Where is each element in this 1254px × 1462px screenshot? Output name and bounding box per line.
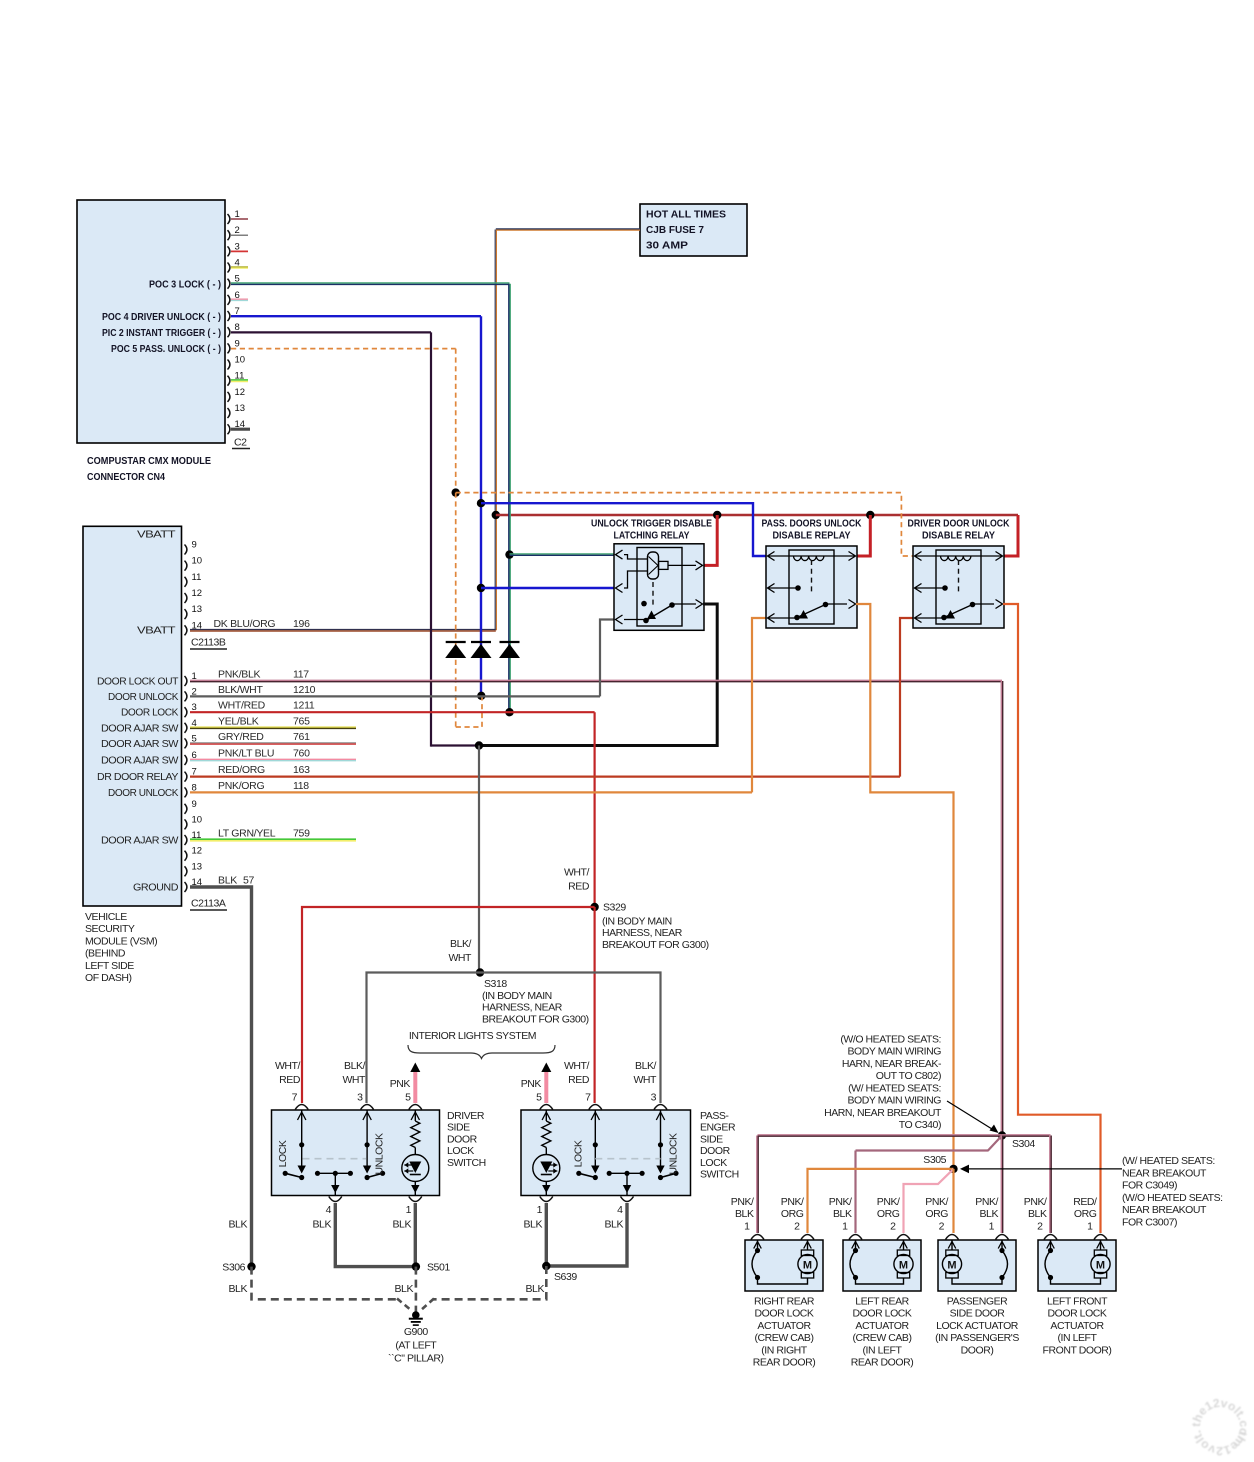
pin 5 of VSM connector C2113A — [185, 733, 197, 748]
wire PNK/BLK bus at actuators — [758, 1135, 1051, 1136]
svg-text:10: 10 — [192, 556, 203, 567]
svg-text:BLK: BLK — [229, 1219, 248, 1231]
svg-text:DOOR LOCK: DOOR LOCK — [755, 1308, 814, 1320]
svg-text:VBATT: VBATT — [137, 529, 176, 541]
pin 11 of VSM connector C2113B — [185, 572, 202, 587]
label wire PNK/BLK pin 1 at x757 — [731, 1196, 754, 1233]
svg-text:(IN RIGHT: (IN RIGHT — [761, 1344, 808, 1356]
svg-text:VBATT: VBATT — [137, 625, 176, 637]
svg-text:PNK/: PNK/ — [829, 1196, 852, 1208]
label connector C2113A — [190, 898, 227, 911]
label wire PNK/BLK 117 — [218, 669, 309, 681]
svg-text:10: 10 — [192, 814, 203, 825]
wire BLK passenger pin1 to S639 — [545, 1203, 548, 1266]
svg-text:POC 4 DRIVER UNLOCK ( - ): POC 4 DRIVER UNLOCK ( - ) — [102, 311, 221, 323]
svg-text:DOOR UNLOCK: DOOR UNLOCK — [108, 691, 178, 703]
svg-text:RED: RED — [279, 1074, 301, 1086]
svg-text:ACTUATOR: ACTUATOR — [1050, 1320, 1104, 1332]
label wire PNK/BLK pin 1 at x855 — [829, 1196, 852, 1233]
wire BLK dashed S501 to ground — [415, 1267, 418, 1312]
pin 8 of CMX connector — [228, 322, 240, 337]
pin 3 of CMX connector — [228, 241, 240, 256]
svg-text:7: 7 — [292, 1092, 298, 1104]
svg-text:ORG: ORG — [1074, 1208, 1097, 1220]
wire PNK/BLK drop act1 — [757, 1136, 758, 1234]
wire red drop to relay2 coil pin — [856, 515, 870, 556]
wire DK BLU/ORG 196 to VSM VBATT pin14 — [190, 630, 496, 631]
svg-text:BLK: BLK — [524, 1219, 543, 1231]
svg-text:BLK: BLK — [313, 1219, 332, 1231]
svg-text:CJB FUSE 7: CJB FUSE 7 — [646, 224, 704, 236]
svg-text:C2: C2 — [234, 437, 247, 449]
svg-text:BLK: BLK — [218, 875, 237, 887]
svg-text:(IN LEFT: (IN LEFT — [863, 1344, 903, 1356]
note W/ HEATED SEATS near S305 — [1122, 1155, 1223, 1228]
svg-text:PNK/: PNK/ — [877, 1196, 900, 1208]
svg-text:PNK/: PNK/ — [781, 1196, 804, 1208]
svg-text:2: 2 — [890, 1221, 896, 1233]
svg-text:DK BLU/ORG: DK BLU/ORG — [214, 618, 276, 630]
wire BLK passenger pin4 to S639 — [546, 1203, 627, 1266]
svg-text:765: 765 — [293, 715, 310, 727]
wire RED/ORG 163 up to relay3 — [900, 618, 914, 777]
svg-text:S306: S306 — [222, 1262, 245, 1274]
junction orange dashed branch — [452, 488, 460, 496]
svg-text:POC 5 PASS. UNLOCK ( - ): POC 5 PASS. UNLOCK ( - ) — [111, 343, 221, 355]
wire BLK/WHT 1210 horizontal — [190, 695, 600, 697]
wire BLK/WHT 1210 up to relay1 — [600, 620, 615, 697]
caption A1 right rear door lock actuator — [753, 1296, 816, 1369]
diode D2 on driver unlock line — [471, 642, 492, 658]
svg-text:HARNESS, NEAR: HARNESS, NEAR — [602, 927, 683, 939]
label C2 connector name — [232, 437, 250, 449]
label BLK/WHT above S318 — [448, 938, 472, 964]
relay U3 DRIVER DOOR UNLOCK DISABLE RELAY — [908, 518, 1010, 542]
svg-text:DOOR AJAR SW: DOOR AJAR SW — [101, 755, 179, 767]
wire WHT/RED run to driver switch — [302, 907, 595, 1103]
svg-text:760: 760 — [293, 748, 310, 760]
svg-text:PNK/LT BLU: PNK/LT BLU — [218, 748, 274, 760]
pin 4 driver switch — [326, 1197, 342, 1217]
wire relay3 switch out red/org — [1003, 604, 1101, 1233]
wire PIC2 purple riser — [430, 332, 432, 746]
svg-text:WHT: WHT — [342, 1074, 366, 1086]
svg-text:BODY MAIN WIRING: BODY MAIN WIRING — [847, 1095, 941, 1107]
svg-text:12: 12 — [192, 588, 203, 599]
pin 14 of VSM connector C2113B — [185, 620, 203, 635]
svg-text:UNLOCK: UNLOCK — [374, 1133, 386, 1175]
pin 10 of VSM connector C2113B — [185, 556, 203, 571]
pin 3 passenger switch — [651, 1092, 667, 1110]
wire stub GRY/RED 761 — [190, 743, 356, 744]
junction lock branch to relay1 — [505, 550, 513, 558]
pin arcs A4 left front door lock actuator — [1044, 1235, 1107, 1240]
pin 1 passenger switch — [537, 1197, 553, 1217]
svg-text:1: 1 — [406, 1204, 412, 1216]
svg-text:S329: S329 — [603, 902, 626, 914]
svg-text:DOOR UNLOCK: DOOR UNLOCK — [108, 787, 178, 799]
svg-text:5: 5 — [536, 1092, 542, 1104]
svg-text:BLK: BLK — [833, 1208, 852, 1220]
wire stub CMX pin3 — [231, 250, 248, 252]
svg-text:LOCK ACTUATOR: LOCK ACTUATOR — [936, 1320, 1019, 1332]
svg-text:BODY MAIN WIRING: BODY MAIN WIRING — [847, 1046, 941, 1058]
svg-text:PASS. DOORS UNLOCK: PASS. DOORS UNLOCK — [762, 518, 862, 530]
svg-text:12: 12 — [235, 387, 246, 398]
svg-text:3: 3 — [357, 1092, 363, 1104]
svg-text:PNK/: PNK/ — [925, 1196, 948, 1208]
svg-text:COMPUSTAR CMX MODULE: COMPUSTAR CMX MODULE — [87, 455, 211, 467]
label WHT/RED passenger pin7 — [564, 1060, 590, 1086]
label wire PNK/ORG pin 2 at x807 — [781, 1196, 804, 1233]
junction lock line to WHT/RED 1211 — [505, 708, 513, 716]
label wire RED/ORG 163 — [218, 764, 310, 776]
svg-text:OF DASH): OF DASH) — [85, 972, 132, 984]
note W/O HEATED SEATS near S304 — [824, 1033, 942, 1131]
pin 7 passenger switch — [585, 1092, 602, 1110]
wire stub CMX pin6 — [231, 299, 248, 300]
svg-text:2: 2 — [235, 225, 240, 236]
svg-text:FRONT DOOR): FRONT DOOR) — [1043, 1344, 1112, 1356]
svg-text:9: 9 — [235, 338, 240, 349]
junction blue to BLK/WHT 1210 — [477, 692, 485, 700]
wire fuse feed riser dk blu/org — [495, 230, 496, 631]
pin 2 of CMX connector — [228, 225, 240, 240]
label wire BLK/WHT 1210 — [218, 684, 316, 696]
svg-text:163: 163 — [293, 764, 310, 776]
svg-text:S318: S318 — [484, 978, 507, 990]
svg-text:ORG: ORG — [877, 1208, 900, 1220]
svg-text:DOOR): DOOR) — [961, 1344, 994, 1356]
label wire BLK 57 — [218, 875, 255, 887]
svg-text:14: 14 — [192, 620, 203, 631]
wire PNK to interior lights driver — [410, 1063, 420, 1104]
label wire PNK/LT BLU 760 — [218, 748, 310, 760]
svg-text:9: 9 — [192, 799, 197, 810]
splice S306 — [247, 1262, 255, 1270]
wire POC5 orange dashed riser upper — [455, 349, 457, 493]
label WHT/RED above S329 — [564, 867, 590, 893]
svg-text:1: 1 — [744, 1221, 750, 1233]
svg-text:BLK: BLK — [229, 1283, 248, 1295]
relay U1 latching relay body — [614, 544, 704, 631]
svg-text:C2113A: C2113A — [191, 898, 226, 910]
junction black to BLK/WHT drop S318 feed — [475, 741, 483, 749]
svg-text:REAR DOOR): REAR DOOR) — [753, 1357, 816, 1369]
wire PNK/BLK drop act3 from S304 — [1001, 1136, 1002, 1234]
wire orange dashed down through diode — [455, 493, 457, 727]
svg-text:DOOR AJAR SW: DOOR AJAR SW — [101, 835, 179, 847]
fuse HOT ALL TIMES CJB FUSE 7 30 AMP — [640, 204, 747, 256]
pin 12 of VSM connector C2113B — [185, 588, 203, 603]
pin 5 passenger switch — [536, 1092, 553, 1110]
relay U1 UNLOCK TRIGGER DISABLE LATCHING RELAY title — [591, 518, 712, 542]
label wire PNK/BLK pin 2 at x1050 — [1024, 1196, 1047, 1233]
svg-text:BLK/: BLK/ — [450, 938, 471, 950]
caption A4 left front door lock actuator — [1043, 1296, 1112, 1357]
pin arcs A3 passenger side door lock actuator — [946, 1235, 1009, 1240]
wire black run to relay1 switch pin — [479, 604, 717, 746]
svg-text:1211: 1211 — [293, 700, 315, 712]
svg-text:(W/O HEATED SEATS:: (W/O HEATED SEATS: — [840, 1033, 941, 1045]
svg-text:S305: S305 — [923, 1154, 946, 1166]
label wire PNK/ORG 118 — [218, 780, 309, 792]
svg-text:WHT/: WHT/ — [275, 1060, 301, 1072]
svg-text:5: 5 — [405, 1092, 411, 1104]
pin 13 of CMX connector — [228, 403, 246, 418]
svg-text:PNK/: PNK/ — [1024, 1196, 1047, 1208]
wire stub LT GRN/YEL 759 — [190, 839, 356, 841]
svg-text:DOOR LOCK OUT: DOOR LOCK OUT — [97, 676, 179, 688]
svg-text:M: M — [1096, 1260, 1105, 1272]
relay U2 PASS. DOORS UNLOCK DISABLE REPLAY — [762, 518, 862, 542]
pin 6 of CMX connector — [228, 290, 240, 305]
svg-text:3: 3 — [651, 1092, 657, 1104]
svg-text:WHT: WHT — [448, 952, 472, 964]
svg-text:9: 9 — [192, 540, 197, 551]
caption A2 left rear door lock actuator — [851, 1296, 914, 1369]
wire stub CMX pin11 — [231, 380, 248, 382]
svg-text:WHT/: WHT/ — [564, 1060, 590, 1072]
svg-text:(CREW CAB): (CREW CAB) — [852, 1332, 911, 1344]
svg-text:WHT/RED: WHT/RED — [218, 700, 266, 712]
svg-text:UNLOCK TRIGGER DISABLE: UNLOCK TRIGGER DISABLE — [591, 518, 712, 530]
svg-text:(AT LEFT: (AT LEFT — [395, 1339, 437, 1351]
wire orange dashed jog to BLK/WHT junction — [456, 697, 482, 727]
svg-text:OUT TO C802): OUT TO C802) — [876, 1070, 941, 1082]
svg-text:(W/ HEATED SEATS:: (W/ HEATED SEATS: — [848, 1082, 941, 1094]
svg-text:LOCK: LOCK — [447, 1145, 474, 1157]
diode D1 on pass unlock line — [445, 642, 466, 658]
wire stub CMX pin1 — [231, 218, 248, 220]
svg-text:ORG: ORG — [781, 1208, 804, 1220]
svg-text:FOR C3049): FOR C3049) — [1122, 1180, 1177, 1192]
svg-text:UNLOCK: UNLOCK — [668, 1133, 680, 1175]
svg-text:M: M — [803, 1260, 812, 1272]
wire stub CMX pin14 — [231, 428, 250, 431]
svg-text:HOT ALL TIMES: HOT ALL TIMES — [646, 209, 726, 221]
svg-text:BREAKOUT FOR G300): BREAKOUT FOR G300) — [482, 1013, 589, 1025]
connector COMPUSTAR CMX module CN4 box — [77, 200, 225, 443]
junction power to relay1 — [713, 511, 721, 519]
switch SW2 passenger side door lock switch — [521, 1110, 691, 1196]
pin arcs A1 right rear door lock actuator — [751, 1235, 814, 1240]
pin 10 of VSM connector C2113A — [185, 814, 203, 829]
wire RED/ORG 163 horizontal — [190, 775, 900, 777]
svg-text:RED: RED — [568, 1074, 590, 1086]
wire PNK/BLK 117 horizontal — [190, 680, 1002, 681]
pin 11 of VSM connector C2113A — [185, 830, 202, 845]
svg-text:LEFT SIDE: LEFT SIDE — [85, 960, 134, 972]
svg-text:RED/ORG: RED/ORG — [218, 764, 265, 776]
svg-text:PNK/BLK: PNK/BLK — [218, 669, 261, 681]
svg-text:(IN LEFT: (IN LEFT — [1058, 1332, 1098, 1344]
pin 3 driver switch — [357, 1092, 373, 1110]
wire WHT/RED 1211 horizontal — [190, 711, 595, 713]
label wire YEL/BLK 765 — [218, 715, 310, 727]
label S318 splice note — [482, 978, 589, 1025]
svg-text:PASSENGER: PASSENGER — [947, 1296, 1008, 1308]
wire blue branch across to relay2 — [481, 503, 767, 556]
wire BLK driver pin1 to S501 — [414, 1203, 417, 1267]
svg-text:2: 2 — [939, 1221, 945, 1233]
svg-text:NEAR BREAKOUT: NEAR BREAKOUT — [1122, 1167, 1207, 1179]
wire PNK/ORG drop act3 from S305 — [952, 1169, 954, 1233]
svg-text:DISABLE RELAY: DISABLE RELAY — [922, 530, 995, 542]
caption A3 passenger side door lock actuator — [935, 1296, 1019, 1357]
svg-text:1: 1 — [1087, 1221, 1093, 1233]
wire relay1 switch out black — [703, 603, 717, 606]
caption VEHICLE SECURITY MODULE — [85, 911, 157, 984]
svg-text:PNK: PNK — [521, 1078, 542, 1090]
svg-text:PIC 2 INSTANT TRIGGER ( - ): PIC 2 INSTANT TRIGGER ( - ) — [102, 327, 221, 339]
svg-text:2: 2 — [794, 1221, 800, 1233]
svg-text:BLK: BLK — [395, 1283, 414, 1295]
svg-text:SIDE: SIDE — [447, 1122, 470, 1134]
svg-text:SWITCH: SWITCH — [447, 1157, 486, 1169]
svg-text:(BEHIND: (BEHIND — [85, 948, 126, 960]
svg-text:DOOR AJAR SW: DOOR AJAR SW — [101, 738, 179, 750]
svg-text:118: 118 — [293, 780, 309, 792]
wire fuse feed horizontal dk blu/org — [496, 229, 640, 230]
pin 4 passenger switch — [617, 1197, 633, 1217]
svg-text:LEFT FRONT: LEFT FRONT — [1047, 1296, 1108, 1308]
svg-text:CONNECTOR CN4: CONNECTOR CN4 — [87, 471, 165, 483]
svg-text:BLK: BLK — [526, 1283, 545, 1295]
junction blue branch to relay2 — [477, 499, 485, 507]
svg-text:(IN PASSENGER'S: (IN PASSENGER'S — [935, 1332, 1019, 1344]
svg-text:BLK: BLK — [980, 1208, 999, 1220]
label BLK/WHT driver pin3 — [342, 1060, 366, 1086]
brace interior lights system — [408, 1045, 555, 1059]
svg-text:ORG: ORG — [925, 1208, 948, 1220]
svg-text:(IN BODY MAIN: (IN BODY MAIN — [482, 990, 552, 1002]
svg-text:FOR C3007): FOR C3007) — [1122, 1216, 1177, 1228]
pin 1 of VSM connector C2113A — [185, 671, 197, 686]
pin 12 of CMX connector — [228, 387, 246, 402]
pin 9 of CMX connector — [228, 338, 240, 353]
label wire WHT/RED 1211 — [218, 700, 315, 712]
pin 7 driver switch — [292, 1092, 309, 1110]
wire PNK/BLK diagonal branch to act2 — [988, 1136, 1002, 1151]
svg-text:DOOR AJAR SW: DOOR AJAR SW — [101, 722, 179, 734]
pin 12 of VSM connector C2113A — [185, 846, 203, 861]
pin 9 of VSM connector C2113B — [185, 540, 197, 555]
pin 7 of CMX connector — [228, 306, 240, 321]
pin 13 of VSM connector C2113A — [185, 861, 203, 876]
svg-text:POC 3 LOCK ( - ): POC 3 LOCK ( - ) — [149, 279, 221, 291]
splice S329 — [590, 903, 598, 911]
actuator A2 left rear door lock actuator — [843, 1240, 921, 1291]
module VSM connector box — [83, 526, 182, 906]
svg-text:RIGHT REAR: RIGHT REAR — [754, 1296, 815, 1308]
svg-text:SIDE: SIDE — [700, 1133, 723, 1145]
splice S304 — [998, 1131, 1006, 1139]
pin 3 of VSM connector C2113A — [185, 702, 197, 717]
wire BLK/WHT run across switches — [367, 973, 661, 1104]
actuator A1 right rear door lock actuator — [745, 1240, 823, 1291]
wire PNK/BLK 117 riser to S304 — [1001, 681, 1002, 1136]
svg-text:RED/: RED/ — [1073, 1196, 1097, 1208]
wire BLK dashed S306 to ground — [252, 1267, 399, 1300]
wire stub YEL/BLK 765 — [190, 727, 356, 728]
label wire PNK/BLK pin 1 at x1002 — [975, 1196, 998, 1233]
splice S639 — [542, 1262, 550, 1270]
svg-text:MODULE (VSM): MODULE (VSM) — [85, 935, 157, 947]
pin 10 of CMX connector — [228, 355, 246, 370]
wire relay2 switch out orange — [856, 604, 954, 1169]
svg-text:DOOR: DOOR — [700, 1145, 731, 1157]
wire stub PNK/LT BLU 760 — [190, 759, 356, 760]
wire BLK dashed S639 to ground — [433, 1266, 546, 1299]
svg-text:BLK: BLK — [605, 1219, 624, 1231]
svg-text:S501: S501 — [427, 1262, 450, 1274]
svg-text:(W/O HEATED SEATS:: (W/O HEATED SEATS: — [1122, 1192, 1223, 1204]
svg-text:PNK/ORG: PNK/ORG — [218, 780, 264, 792]
svg-text:WHT: WHT — [633, 1074, 657, 1086]
svg-text:(W/ HEATED SEATS:: (W/ HEATED SEATS: — [1122, 1155, 1215, 1167]
svg-text:BLK/: BLK/ — [344, 1060, 365, 1072]
wire BLK/WHT drop to S318 — [478, 746, 480, 973]
svg-text:INTERIOR LIGHTS SYSTEM: INTERIOR LIGHTS SYSTEM — [409, 1030, 536, 1042]
svg-text:BLK: BLK — [1028, 1208, 1047, 1220]
svg-text:DOOR: DOOR — [447, 1133, 478, 1145]
diode D3 on lock line — [499, 642, 520, 658]
wire POC3 lock grn/blu riser — [509, 284, 510, 713]
svg-text:1: 1 — [537, 1204, 543, 1216]
svg-text:57: 57 — [243, 875, 255, 887]
wire orange dashed across to relay3 — [456, 493, 914, 556]
label G900 AT LEFT C PILLAR — [388, 1326, 444, 1365]
ground G900 symbol — [409, 1311, 423, 1325]
svg-text:LEFT REAR: LEFT REAR — [855, 1296, 909, 1308]
svg-text:GROUND: GROUND — [133, 882, 179, 894]
junction power tap on riser — [492, 511, 500, 519]
svg-text:HARN, NEAR BREAK-: HARN, NEAR BREAK- — [842, 1058, 942, 1070]
svg-text:759: 759 — [293, 828, 310, 840]
splice S501 — [412, 1262, 420, 1270]
pin 11 of CMX connector — [228, 371, 245, 386]
wire POC3 lock grn/blu horizontal — [231, 283, 510, 284]
label WHT/RED driver pin7 — [275, 1060, 301, 1086]
svg-text:LOCK: LOCK — [573, 1140, 585, 1167]
caption DRIVER SIDE DOOR LOCK SWITCH — [447, 1110, 486, 1169]
svg-text:761: 761 — [293, 731, 310, 743]
svg-text:DR DOOR RELAY: DR DOOR RELAY — [97, 771, 178, 783]
svg-text:PNK/: PNK/ — [975, 1196, 998, 1208]
svg-text:G900: G900 — [404, 1326, 428, 1338]
pin 5 driver switch — [405, 1092, 422, 1110]
wire PNK/ORG 118 up to relay2 — [752, 618, 767, 792]
pin 8 of VSM connector C2113A — [185, 782, 197, 797]
arrow annotation to S305 — [960, 1165, 1122, 1174]
svg-text:13: 13 — [192, 604, 203, 615]
label connector C2113B — [190, 637, 227, 650]
pin 6 of VSM connector C2113A — [185, 750, 197, 765]
pin arcs A2 left rear door lock actuator — [849, 1235, 910, 1240]
wire PNK to interior lights passenger — [541, 1063, 551, 1104]
svg-text:117: 117 — [293, 669, 309, 681]
svg-text:PNK: PNK — [390, 1078, 411, 1090]
svg-text:13: 13 — [192, 861, 203, 872]
svg-text:GRY/RED: GRY/RED — [218, 731, 264, 743]
svg-text:HARN, NEAR BREAKOUT: HARN, NEAR BREAKOUT — [824, 1107, 942, 1119]
wire WHT/RED drop to passenger switch — [593, 907, 595, 1103]
svg-text:(CREW CAB): (CREW CAB) — [754, 1332, 813, 1344]
pin 14 of VSM connector C2113A — [185, 877, 203, 892]
svg-text:TO C340): TO C340) — [899, 1119, 941, 1131]
svg-text:SWITCH: SWITCH — [700, 1169, 739, 1181]
